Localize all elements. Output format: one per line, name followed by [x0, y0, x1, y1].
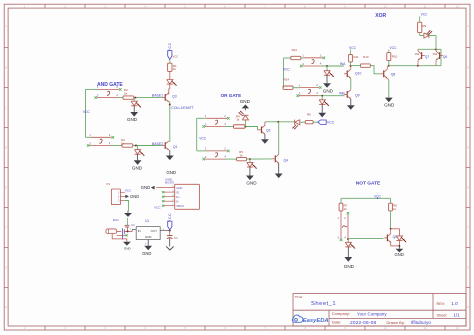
svg-text:VCC: VCC: [349, 46, 357, 50]
wire SW3 to R4: [225, 126, 234, 128]
svg-text:R10: R10: [392, 55, 398, 59]
svg-text:B: B: [467, 66, 469, 70]
resistor R4: [234, 114, 246, 128]
VCC top wire (NOT): [341, 198, 391, 203]
switch SW4 (input B): [202, 146, 229, 160]
svg-text:GND: GND: [142, 251, 151, 256]
VCC rail wire (AND): [86, 89, 99, 137]
ground (Q5/LED): [395, 246, 404, 257]
junction: [390, 228, 392, 230]
capacitor C1: [167, 231, 178, 240]
svg-text:R12: R12: [292, 48, 298, 52]
svg-text:VCC: VCC: [168, 42, 172, 51]
XOR section title: [375, 13, 386, 19]
svg-text:Q8: Q8: [391, 73, 396, 77]
net label BASE1: [152, 94, 163, 98]
svg-text:C1: C1: [174, 236, 178, 240]
ground (P1 pin 3): [124, 211, 132, 217]
net label BASE2: [152, 142, 163, 146]
ground (below LED D2): [127, 106, 138, 122]
svg-text:2N2: 2N2: [415, 53, 420, 56]
resistor R5: [237, 150, 247, 161]
switch SW1 (input A): [94, 85, 121, 99]
NOT GATE section title: [356, 180, 381, 186]
svg-text:COLL1/EMITT: COLL1/EMITT: [171, 106, 194, 110]
svg-text:R6: R6: [307, 113, 311, 117]
svg-text:1k: 1k: [239, 153, 243, 157]
VCC rail wire (OR): [197, 118, 206, 151]
wire Q6 collector/emitter stubs: [435, 49, 437, 65]
svg-text:REV:: REV:: [437, 302, 446, 306]
DC1 switch pin (unconnected): [117, 234, 128, 236]
ground (Q9 emitter): [347, 99, 355, 110]
transistor Q10: [344, 66, 362, 78]
svg-text:GND: GND: [323, 88, 334, 93]
svg-text:DC1: DC1: [113, 218, 119, 222]
transistor Q8: [381, 69, 396, 78]
LED D5 (input B indicator): [247, 159, 257, 169]
wire SW7 to Q5 base: [348, 238, 383, 240]
wire R2 to Q3 base, node BASE1: [134, 97, 162, 99]
regulator U1: [136, 219, 160, 239]
wire collector node to R13: [351, 65, 361, 67]
resistor R8: [389, 203, 397, 211]
svg-text:Q2: Q2: [266, 129, 271, 133]
wire SW6 to Q9, node INB: [318, 95, 345, 97]
resistor R1: [168, 63, 177, 71]
svg-text:GND: GND: [141, 185, 151, 190]
svg-text:TITLE:: TITLE:: [295, 295, 304, 299]
svg-text:Sheet:: Sheet:: [437, 313, 448, 317]
svg-text:Your Company: Your Company: [357, 311, 387, 316]
switch SW2 (input B): [87, 133, 114, 147]
svg-text:EasyEDA: EasyEDA: [303, 318, 329, 324]
junction: [326, 65, 328, 67]
wire SW1 to R2: [118, 97, 123, 99]
power flag VCC (R11): [349, 46, 357, 55]
ground (flipped, above LED D4): [240, 99, 251, 110]
wire R8 to Q5 collector node: [390, 211, 392, 229]
ground (Q8 emitter): [384, 78, 395, 107]
svg-text:NOT GATE: NOT GATE: [356, 180, 381, 186]
svg-text:R13: R13: [363, 55, 369, 59]
svg-text:AND GATE: AND GATE: [97, 82, 123, 88]
svg-text:GND: GND: [384, 103, 395, 108]
svg-text:R11: R11: [353, 55, 359, 59]
capacitor C2 (inline): [123, 228, 125, 239]
transistor Q9: [344, 89, 360, 99]
power flag VCC (U1 output): [168, 213, 172, 230]
svg-text:GND: GND: [130, 194, 139, 199]
svg-text:H: H: [5, 305, 7, 309]
junction: [321, 95, 323, 97]
net label COLL1/EMITT: [171, 106, 194, 110]
wire R7 to switch SW7: [340, 211, 342, 215]
svg-text:1k: 1k: [344, 207, 348, 211]
connector P1: [107, 182, 125, 205]
ground (Q4 emitter): [275, 164, 283, 179]
capacitor C3: [125, 218, 135, 231]
wire Q2 collector to output node: [265, 122, 294, 126]
svg-text:D: D: [467, 146, 469, 150]
svg-text:B: B: [5, 66, 7, 70]
svg-text:GND: GND: [395, 252, 404, 257]
svg-text:D-: D-: [176, 200, 179, 204]
svg-text:VCC: VCC: [199, 136, 207, 140]
svg-text:VBUS: VBUS: [176, 204, 184, 208]
svg-text:Q1: Q1: [173, 145, 178, 149]
wire R14 to SW6: [293, 87, 300, 89]
resistor R9: [418, 22, 427, 32]
resistor R13: [360, 55, 370, 68]
EasyEDA logo: [292, 315, 328, 324]
ground flag (P1 pin 2): [125, 194, 140, 199]
svg-text:VCC: VCC: [173, 54, 179, 58]
junction: [398, 245, 400, 247]
LED D7 (XOR input A indicator): [324, 66, 334, 77]
svg-text:G: G: [5, 266, 7, 270]
svg-text:A: A: [467, 24, 469, 28]
svg-text:2022-06-08: 2022-06-08: [350, 320, 376, 326]
connector USB1 MICRO: [156, 177, 199, 209]
switch SW6 (XOR input B): [296, 83, 321, 97]
svg-text:E: E: [467, 186, 469, 190]
svg-text:GND: GND: [166, 170, 176, 175]
wire R1 to LED D1: [169, 71, 171, 79]
title block: [293, 294, 466, 327]
ground (U1 GND pin): [142, 240, 152, 257]
wire R11 to Q10 collector node: [350, 62, 352, 66]
svg-text:1/1: 1/1: [454, 312, 461, 317]
junction: [126, 230, 128, 232]
ground (below LED D7): [323, 75, 334, 93]
net label VCC (USB VBUS): [154, 206, 161, 210]
junction: [347, 238, 349, 240]
resistor R12: [291, 48, 301, 60]
svg-text:ID: ID: [176, 190, 179, 194]
svg-text:Company:: Company:: [332, 311, 350, 316]
title block texts: [295, 295, 461, 326]
svg-text:GND: GND: [124, 246, 132, 250]
svg-text:A: A: [5, 24, 7, 28]
svg-text:1.0: 1.0: [451, 301, 458, 306]
svg-text:VCC: VCC: [168, 213, 172, 222]
LED D9 (XOR output indicator): [420, 30, 432, 38]
DC1 sleeve to ground: [112, 234, 127, 242]
svg-text:VCC: VCC: [154, 206, 161, 210]
svg-text:1k: 1k: [124, 91, 128, 95]
wire SW2 to R3: [111, 145, 123, 147]
svg-text:Q7: Q7: [425, 55, 429, 59]
transistor Q3: [162, 93, 177, 102]
LED D6 (OR output chain): [292, 120, 299, 130]
wire R5 to Q4 base: [247, 158, 273, 160]
net label VCC (P1 pin 1): [125, 189, 132, 193]
svg-text:GND: GND: [127, 117, 138, 122]
svg-text:2N2: 2N2: [433, 53, 438, 56]
svg-text:MICRO: MICRO: [165, 180, 175, 184]
svg-text:R14: R14: [284, 78, 290, 82]
svg-text:VCC: VCC: [327, 121, 335, 125]
svg-text:Date:: Date:: [332, 320, 342, 325]
svg-text:INA: INA: [340, 62, 346, 66]
transistor Q1: [162, 141, 178, 150]
svg-text:XOR: XOR: [375, 13, 386, 19]
svg-text:VCC: VCC: [83, 110, 91, 114]
LED D11 (NOT output indicator): [391, 229, 407, 246]
junction: [350, 65, 352, 67]
wire R4 to Q2 base: [245, 127, 258, 130]
transistor Q6: [433, 51, 448, 60]
connector DC1 (barrel jack): [106, 218, 121, 234]
LED D10 (NOT input indicator): [345, 239, 355, 248]
LED D3 (input B indicator): [135, 146, 145, 156]
resistor R7: [339, 203, 348, 211]
wire P1 pin 3 down: [125, 201, 129, 211]
transistor Q2: [258, 125, 270, 134]
svg-text:Iffituburyo: Iffituburyo: [411, 320, 432, 325]
svg-text:D: D: [5, 146, 7, 150]
switch SW5 (XOR input A): [300, 53, 325, 67]
resistor R11: [349, 55, 359, 63]
transistor Q7: [415, 51, 430, 60]
ground (below LED D10): [344, 247, 355, 269]
junction: [388, 65, 390, 67]
ground (C1, chevron): [166, 238, 173, 250]
junction: [249, 158, 251, 160]
switch SW3 (input A): [202, 114, 229, 128]
svg-text:Q10: Q10: [355, 72, 362, 76]
net label VCC (XOR rail): [283, 68, 291, 72]
transistor Q5: [384, 229, 397, 243]
svg-text:GND: GND: [240, 99, 251, 104]
svg-text:INB: INB: [339, 92, 345, 96]
svg-text:Sheet_1: Sheet_1: [311, 301, 336, 307]
svg-text:GND: GND: [344, 264, 355, 269]
OR GATE section title: [221, 93, 242, 98]
svg-text:VCC: VCC: [421, 12, 428, 16]
junction: [417, 48, 437, 66]
svg-text:VCC: VCC: [125, 189, 132, 193]
VCC rail wire (XOR): [284, 58, 291, 88]
switch SW7 (NOT input, vertical): [337, 212, 349, 241]
wire R6 to VCC flag: [313, 121, 318, 123]
wire R13 to Q8 base: [370, 66, 380, 74]
resistor R14: [283, 78, 293, 90]
svg-text:VCC: VCC: [390, 46, 398, 50]
svg-text:GND: GND: [176, 186, 182, 190]
power flag VCC (R10): [389, 46, 397, 53]
svg-text:GND: GND: [132, 165, 143, 170]
net label INA: [340, 62, 346, 66]
wire Q8 collector to R10 node: [386, 66, 388, 70]
resistor R10: [387, 53, 398, 61]
ground (below LED D3): [132, 154, 143, 170]
LED D1 (AND output indicator): [167, 80, 177, 89]
power flag VCC (OR output): [318, 120, 335, 125]
svg-text:1k: 1k: [121, 141, 125, 145]
svg-text:C: C: [5, 106, 7, 110]
resistor R2: [123, 88, 134, 99]
net label GND (USB shield): [166, 170, 176, 175]
svg-text:R9: R9: [422, 24, 426, 28]
svg-text:Q6: Q6: [443, 55, 447, 59]
ground (DC1 sleeve): [123, 242, 131, 251]
transistor Q4: [272, 154, 288, 163]
wire Q10 emitter to Q9 collector: [350, 78, 352, 89]
svg-text:Drawn By:: Drawn By:: [387, 320, 405, 325]
wire LED D9 to Q7/Q6 pair: [429, 36, 436, 50]
AND GATE section title: [97, 82, 123, 88]
net label VCC (NOT): [374, 195, 381, 199]
svg-text:U1: U1: [145, 219, 149, 223]
wire DC1 to U1 IN: [124, 228, 136, 231]
svg-text:Q9: Q9: [355, 94, 360, 98]
wire R10 to Q8 collector node: [388, 61, 390, 66]
svg-text:GND: GND: [246, 181, 257, 186]
svg-text:1k: 1k: [173, 67, 177, 71]
wire Q7 collector/emitter stubs: [417, 49, 419, 65]
svg-text:OUT: OUT: [151, 229, 158, 233]
wire SW5 to Q10, node INA: [322, 65, 344, 67]
ground (below LED D5): [246, 167, 257, 186]
svg-text:BASE1: BASE1: [152, 94, 163, 98]
svg-text:E: E: [5, 186, 7, 190]
wire LED D6 to R6: [300, 121, 306, 123]
svg-text:OR GATE: OR GATE: [221, 93, 242, 98]
junction: [134, 97, 136, 99]
svg-text:H: H: [467, 305, 469, 309]
LED D4 (OR output indicator): [239, 111, 249, 127]
wire R12 to SW5: [301, 57, 304, 59]
ground (Q2 emitter): [261, 134, 269, 143]
net label VCC (AND rail): [83, 110, 91, 114]
svg-text:BASE2: BASE2: [152, 142, 163, 146]
svg-text:C3: C3: [131, 223, 135, 227]
junction: [135, 145, 137, 147]
wire SW4 to R5: [225, 158, 237, 160]
LED D2 (input A indicator): [131, 98, 141, 108]
svg-text:GND: GND: [145, 235, 153, 239]
power flag VCC (XOR output): [420, 12, 428, 22]
svg-text:Q3: Q3: [172, 94, 177, 98]
svg-text:G: G: [467, 266, 469, 270]
svg-text:VCC: VCC: [283, 68, 291, 72]
junction: [169, 104, 171, 106]
power flag VCC (AND output pull-up): [168, 42, 179, 63]
ground (Q1 emitter): [166, 150, 174, 160]
junction: [277, 121, 279, 123]
svg-text:P1: P1: [107, 182, 111, 186]
resistor R3: [121, 138, 133, 147]
svg-text:Q4: Q4: [284, 159, 289, 163]
junction: [244, 126, 246, 128]
svg-text:D+: D+: [176, 195, 180, 199]
wire output bus (Q7/Q6 emitters): [389, 49, 441, 65]
ground (below LED D8): [318, 104, 326, 117]
svg-text:1k: 1k: [236, 118, 240, 122]
wire Q5 emitter to LED bottom: [391, 242, 400, 246]
wire R3 to Q1 base, node BASE2: [133, 145, 162, 147]
junction: [169, 230, 171, 232]
svg-text:C: C: [467, 106, 469, 110]
net label INB: [339, 92, 345, 96]
resistor R6: [305, 113, 313, 124]
wire U1 OUT to VCC node: [160, 229, 170, 231]
net label VCC (OR rail): [199, 136, 207, 140]
wire Q3 collector up: [168, 89, 170, 95]
svg-text:IN: IN: [138, 229, 141, 233]
wire Q3 emitter to Q1 collector, node COLL1/EMITT: [169, 101, 171, 142]
LED D8 (XOR input B indicator): [319, 96, 329, 106]
ground flag (USB pin 5): [141, 185, 155, 190]
wire Q4 collector up to output node: [278, 122, 280, 155]
